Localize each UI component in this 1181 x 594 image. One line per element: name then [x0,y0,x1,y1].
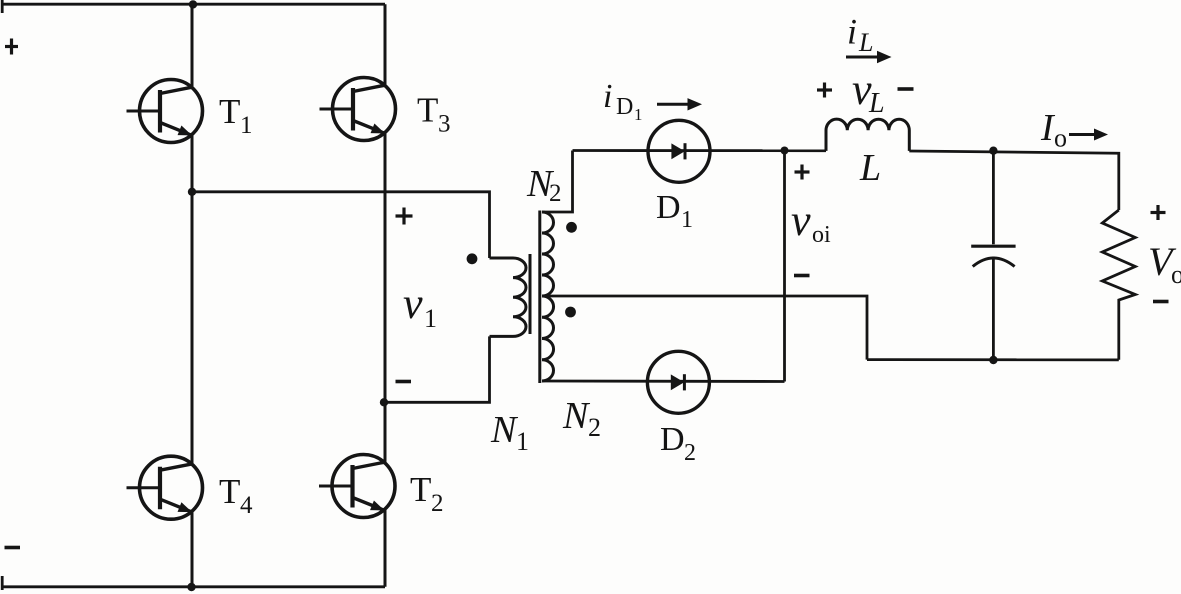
wire: secondary top lead up to D1 line [542,151,573,213]
polarity dot: primary [467,253,478,264]
wire: bottom output return [867,358,1119,361]
svg-text:D: D [660,421,685,458]
svg-text:1: 1 [681,207,693,233]
label: - of voi [794,274,810,278]
wire: bridge midpoint A to primary top [192,192,490,258]
transformer primary winding N1 [490,258,527,336]
svg-text:1: 1 [634,105,643,124]
resistor load V_o [1102,210,1135,360]
node: capacitor top junction [989,147,997,155]
svg-text:v: v [791,196,811,245]
transistor T3 [320,78,396,141]
svg-text:T: T [219,472,240,511]
capacitor C top plate [971,245,1015,248]
wire: left bridge leg rail (T1/T4) [191,4,194,587]
wire: after inductor to load corner [909,151,1119,210]
wire: bottom-left edge stub [1,576,4,590]
label: + of vL [817,83,832,98]
label: - of Vo [1153,300,1169,304]
capacitor C curved bottom plate [973,258,1015,267]
transistor T1 [127,80,203,143]
node: junction midpoint B [380,398,388,406]
polarity dot: secondary upper [566,222,577,233]
polarity dot: secondary lower [565,307,576,318]
svg-text:1: 1 [424,304,437,333]
transformer secondary upper winding N2 [542,212,554,296]
arrow: I_o direction [1069,133,1096,136]
svg-text:v: v [403,279,423,328]
node: junction midpoint A [188,188,196,196]
diode D1 [648,120,710,182]
svg-text:N: N [562,395,591,437]
inductor L [826,119,909,151]
wire: diode cathode rail (D1 node down to D2) [783,151,786,382]
arrow: i_D1 direction [657,103,689,106]
label: + of v1 [396,208,413,225]
svg-text:oi: oi [812,222,831,248]
wire: bottom DC bus [2,585,386,588]
svg-text:D: D [656,189,681,226]
svg-text:i: i [603,78,612,115]
label: - of v1 [396,380,412,384]
svg-text:4: 4 [240,492,253,519]
svg-text:L: L [858,28,873,57]
svg-text:T: T [410,470,431,509]
capacitor C top lead [992,151,995,245]
node: junction bottom bus / T4 rail [187,583,195,591]
label: - of vL [898,87,914,91]
arrow: i_L direction [846,56,879,59]
wire: center tap lead to output return corner [542,296,867,360]
svg-text:T: T [417,91,438,130]
transformer secondary lower winding N2 [542,296,554,381]
wire: secondary bottom lead through D2 [542,380,785,383]
node: junction top bus / T1 rail [189,0,197,8]
transformer core line (secondary side) [538,211,541,384]
svg-text:D: D [616,94,633,120]
node: D1 cathode junction [781,147,789,155]
capacitor C bottom lead [992,257,995,360]
svg-text:1: 1 [240,112,253,139]
transformer core line (primary side) [529,254,532,334]
node: capacitor bottom junction [989,356,997,364]
wire: top DC bus [2,3,386,6]
svg-text:i: i [847,12,857,52]
label: + of Vo [1151,205,1166,220]
label: + input [5,39,18,55]
transistor T2 [319,455,395,518]
transistor T4 [127,456,203,519]
label: + of voi [795,165,810,180]
svg-text:L: L [859,147,881,189]
svg-text:1: 1 [516,427,529,456]
svg-text:2: 2 [588,413,601,442]
wire: primary bottom to bridge midpoint B [384,336,490,402]
svg-text:2: 2 [549,180,562,207]
wire: top-left edge stub [1,0,4,13]
wire: v_oi top line through D1 to inductor [573,149,827,152]
svg-text:2: 2 [431,490,444,517]
svg-text:o: o [1171,260,1181,289]
svg-text:T: T [219,92,240,131]
svg-text:o: o [1054,124,1067,153]
svg-text:3: 3 [438,111,451,138]
diode D2 [647,351,709,413]
svg-text:L: L [868,88,885,119]
label: - input [5,546,21,550]
svg-text:2: 2 [684,440,696,466]
wire: right bridge leg rail (T3/T2) [384,4,387,587]
svg-text:N: N [490,409,519,451]
